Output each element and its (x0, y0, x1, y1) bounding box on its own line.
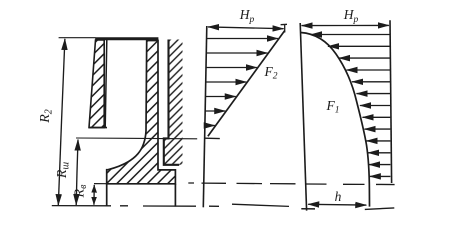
front shroud inner face line (105, 40, 107, 128)
F2 pressure arrow 2 (206, 52, 267, 54)
F1 pressure arrow 7 (360, 105, 390, 107)
F2 Hp dimension arrow (208, 26, 245, 29)
F1 pressure arrow 10 (367, 140, 391, 142)
F1 pressure arrow 12 (369, 164, 390, 166)
F1 pressure arrow 13 (370, 175, 391, 177)
impeller front shroud (hatched wall) (89, 40, 104, 128)
dimension R_sh (77, 140, 78, 172)
F1 pressure arrow 2 (328, 45, 390, 47)
F1 left line bottom bar (301, 208, 315, 210)
shaft right edge (174, 184, 176, 207)
F2 pressure arrow 6 (205, 110, 225, 112)
F1 pressure arrow 11 (368, 152, 390, 154)
F2 top stub (281, 24, 287, 32)
axis of rotation (dash-dot centre line) (52, 204, 289, 206)
shaft-radius dashed line across diagrams (188, 183, 364, 184)
F1 right line bottom tick (376, 183, 395, 185)
F1 Hp dimension arrow (302, 25, 345, 27)
F1 pressure arrow 4 (347, 69, 391, 71)
F2 pressure arrow 1 (207, 38, 278, 40)
impeller rear shroud + hub (hatched) (107, 41, 176, 184)
impeller top cap (shroud rim) (95, 37, 158, 40)
F1 pressure arrow 3 (339, 57, 390, 59)
F2 pressure arrow 7 (205, 125, 215, 127)
F1 right reference line (390, 20, 392, 183)
svg-text:h: h (335, 189, 342, 204)
F2 pressure profile slant line (208, 31, 285, 137)
F1 diagram left base line (at front shroud) (300, 23, 306, 211)
F2 diagram base line (at rear shroud) (203, 26, 207, 207)
front shroud bottom edge (89, 127, 107, 129)
ground line under h (365, 208, 395, 210)
F1 pressure arrow 8 (363, 116, 391, 118)
F1 pressure profile curve (301, 33, 370, 207)
F1 pressure arrow 5 (352, 81, 390, 83)
dimension h (308, 203, 337, 205)
R_sh reference line (wear-ring radius) (76, 137, 197, 140)
F1 pressure arrow 6 (357, 93, 391, 95)
shaft left edge (106, 184, 108, 206)
F2 pressure arrow 3 (206, 67, 257, 69)
R2 reference line extension (59, 37, 96, 39)
dimension R2 (62, 39, 65, 122)
F2 pressure arrow 5 (205, 96, 235, 98)
F1 pressure arrow 1 (311, 34, 390, 36)
F1 pressure arrow 9 (365, 128, 391, 130)
F2 pressure arrow 4 (206, 81, 247, 83)
dimension R_v (93, 185, 95, 195)
F2 lower tick at R_sh (204, 137, 219, 139)
casing inner edge (164, 40, 179, 165)
casing wall (hatched, cut edges) (164, 40, 183, 165)
R_v reference line (shaft radius) (94, 183, 107, 185)
